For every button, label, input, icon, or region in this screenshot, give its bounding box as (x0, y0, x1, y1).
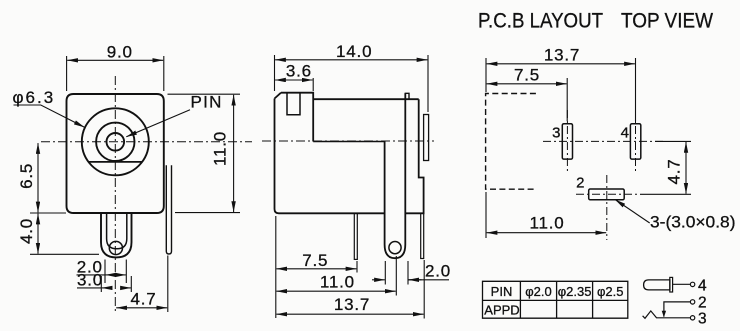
svg-text:2: 2 (698, 294, 707, 311)
dim 2.0 line and arrows (77, 274, 106, 276)
svg-text:13.7: 13.7 (544, 45, 580, 64)
dim 11.0 pcb line (487, 232, 607, 234)
dim 3.6 extension line (312, 78, 314, 91)
svg-text:4: 4 (698, 277, 707, 294)
front center terminal (U shaped lug below) (101, 213, 132, 257)
dim 13.7 line (276, 313, 423, 315)
svg-text:14.0: 14.0 (336, 42, 372, 61)
phi6.3 leader line (14, 105, 85, 127)
bottom dims left extension line (275, 216, 277, 318)
dim 11.0 right extension lines (168, 93, 241, 95)
svg-text:φ6.3: φ6.3 (13, 88, 56, 107)
dim 4.7 line (116, 307, 167, 309)
svg-text:4.0: 4.0 (17, 218, 36, 244)
center terminal bar (side view) (385, 93, 406, 258)
dim 11.0 pcb extension line (485, 192, 487, 238)
svg-text:4.7: 4.7 (130, 289, 156, 308)
dim 4.0 line (37, 214, 39, 254)
horizontal dash-dot centerline front view (41, 141, 252, 143)
dim 9.0 line with arrows (67, 59, 163, 61)
dim 9.0 extension lines (66, 56, 68, 91)
dim 3.0 extension ticks (100, 276, 102, 292)
dim 3.0 line and arrows (77, 287, 101, 289)
svg-text:11.0: 11.0 (320, 272, 355, 291)
barrel middle circle (96, 123, 134, 161)
dim 13.7 extension line (back pin) (423, 260, 425, 319)
dim 14.0 extension lines (274, 55, 276, 91)
side body mid seam line (313, 141, 384, 143)
svg-text:2.0: 2.0 (425, 261, 451, 280)
svg-text:φ2.5: φ2.5 (597, 284, 624, 299)
svg-text:APPD: APPD (484, 303, 519, 318)
pin 3 circle (690, 316, 694, 320)
dim 4.7 pcb extension lines (655, 140, 691, 142)
dim 2.0 middle ticks (384, 261, 386, 285)
center pin circle (107, 133, 125, 151)
dim 13.7 pcb line (487, 63, 635, 65)
back pin side view (421, 213, 424, 258)
svg-text:7.5: 7.5 (302, 251, 328, 270)
pads horizontal centerline (543, 140, 664, 142)
dim 7.5 line (276, 268, 356, 270)
svg-text:7.5: 7.5 (514, 66, 540, 85)
side view horizontal centerline (262, 140, 434, 142)
left extension ticks for 6.5 / 4.0 (30, 212, 66, 214)
pin 4 circle (690, 282, 694, 286)
right side terminal lug (front view) (166, 165, 171, 254)
chord flat line across barrel (89, 161, 143, 163)
dim 11.0 right line (233, 95, 235, 212)
hole in front lug (109, 241, 122, 254)
plug flange bar (670, 277, 673, 292)
svg-text:φ2.0: φ2.0 (525, 284, 552, 299)
side body top edge (313, 98, 419, 100)
svg-text:3-(3.0×0.8): 3-(3.0×0.8) (650, 213, 736, 232)
pad 3 (562, 124, 572, 159)
svg-text:φ2.35: φ2.35 (558, 284, 592, 299)
pad 2 vertical centerline (606, 175, 608, 240)
pad 2 (589, 189, 625, 200)
pin 3 lead line with spring contact (643, 311, 691, 318)
svg-text:13.7: 13.7 (334, 295, 370, 314)
svg-text:P.C.B LAYOUT: P.C.B LAYOUT (478, 10, 603, 33)
side housing flange outline (275, 93, 385, 214)
svg-text:11.0: 11.0 (529, 214, 564, 233)
pad 3 vertical centerline (566, 110, 568, 171)
back wall step outline (385, 99, 424, 213)
pin 4 lead line (673, 283, 691, 285)
dim 6.5 line (37, 143, 39, 212)
dashed housing outline (pcb) (486, 94, 536, 190)
pin 2 circle (690, 300, 694, 304)
svg-text:3.0: 3.0 (77, 271, 103, 290)
hole in terminal bar (389, 242, 401, 254)
svg-text:4: 4 (621, 124, 629, 141)
dim 7.5 pcb extension line (566, 78, 568, 121)
svg-text:11.0: 11.0 (211, 131, 230, 166)
pin 2 lead line with drop arrow (664, 302, 691, 317)
svg-text:PIN: PIN (191, 93, 223, 112)
svg-text:4.7: 4.7 (665, 158, 684, 184)
dim 14.0 line (275, 59, 427, 61)
dim 11.0 line (276, 290, 395, 292)
PIN leader line (126, 110, 190, 137)
barrel outer circle (82, 108, 149, 175)
svg-text:3: 3 (698, 310, 707, 327)
svg-text:TOP VIEW: TOP VIEW (621, 10, 713, 33)
dim 11.0 extension line (terminal center) (395, 256, 397, 296)
dim 4.7 pcb line (685, 142, 687, 194)
dim 4.7 right extension line (167, 256, 169, 313)
label 3-(3.0x0.8) leader (615, 200, 650, 224)
svg-text:3: 3 (552, 124, 560, 141)
dim 2.0 extension ticks (104, 260, 106, 284)
dim 13.7 pcb extension lines (485, 58, 487, 92)
front housing body outline (67, 94, 164, 213)
dim 2.0 middle arrows and line (372, 279, 385, 281)
pad 2 horizontal centerline (576, 193, 640, 195)
side tab (right) (424, 115, 429, 161)
back top tab (405, 93, 409, 99)
table grid (483, 281, 628, 318)
svg-text:3.6: 3.6 (286, 61, 312, 80)
pad 4 (630, 124, 640, 159)
left pin side view (354, 213, 357, 259)
plug barrel symbol (644, 280, 670, 290)
flange notch (287, 93, 300, 115)
inner slot U of front lug (107, 213, 127, 249)
pad 4 vertical centerline (635, 110, 637, 171)
dim 3.6 line (275, 79, 313, 81)
svg-text:2: 2 (576, 175, 584, 192)
dim 7.5 pcb line (487, 83, 567, 85)
vertical dash-dot centerline front view (114, 76, 116, 311)
svg-text:9.0: 9.0 (107, 42, 133, 61)
svg-text:6.5: 6.5 (17, 163, 36, 189)
svg-text:PIN: PIN (491, 284, 513, 299)
